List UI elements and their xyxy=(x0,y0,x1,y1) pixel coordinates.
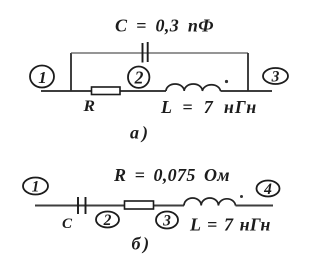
svg-text:C = 0,3 пФ: C = 0,3 пФ xyxy=(115,16,214,36)
svg-text:а): а) xyxy=(130,123,151,144)
svg-text:C: C xyxy=(62,216,73,232)
svg-text:L = 7 нГн: L = 7 нГн xyxy=(160,97,257,117)
svg-text:R = 0,075 Ом: R = 0,075 Ом xyxy=(113,165,230,185)
svg-text:1: 1 xyxy=(32,179,40,196)
svg-text:б): б) xyxy=(132,234,152,255)
svg-text:4: 4 xyxy=(263,181,272,198)
svg-text:1: 1 xyxy=(38,68,47,87)
svg-text:3: 3 xyxy=(271,69,280,86)
svg-text:2: 2 xyxy=(103,212,112,229)
svg-text:R: R xyxy=(82,98,95,115)
svg-text:2: 2 xyxy=(134,68,144,88)
svg-text:L = 7 нГн: L = 7 нГн xyxy=(189,215,271,235)
svg-text:3: 3 xyxy=(162,213,171,230)
